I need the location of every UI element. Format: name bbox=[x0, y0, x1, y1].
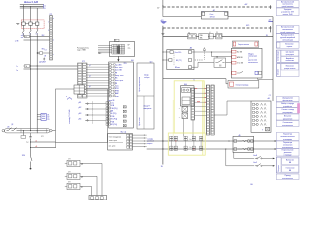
wire breaker link bbox=[25, 23, 29, 25]
contact block SB2 with text bbox=[199, 34, 209, 40]
wire rail1 tap to A2 bbox=[162, 10, 164, 17]
svg-text:ВВ: ВВ bbox=[289, 162, 291, 164]
wire capsule to panel bbox=[52, 130, 55, 132]
svg-text:КЧ: КЧ bbox=[188, 32, 190, 34]
transducer BR terminal grid bbox=[111, 44, 113, 54]
svg-text:Откл невыдержка: Откл невыдержка bbox=[109, 137, 122, 139]
transducer BR box bbox=[109, 42, 134, 57]
svg-text:Отключение: Отключение bbox=[283, 122, 293, 124]
svg-text:РЗА: РЗА bbox=[111, 120, 115, 123]
panel enclosure left big box bbox=[56, 89, 108, 142]
lamp panel A4 box bbox=[251, 101, 271, 132]
controller A1 lower terminal rows bbox=[106, 102, 108, 104]
svg-text:ЛТВ: ЛТВ bbox=[123, 63, 126, 65]
svg-text:ТН: ТН bbox=[25, 66, 27, 68]
svg-text:нВ: нВ bbox=[44, 56, 46, 58]
svg-text:SA: SA bbox=[216, 55, 218, 58]
svg-text:QF: QF bbox=[11, 124, 13, 126]
svg-text:измерение: измерение bbox=[143, 108, 151, 110]
node pink highlight bar bbox=[297, 103, 299, 113]
svg-text:Сирена звонок: Сирена звонок bbox=[238, 44, 249, 46]
node hook symbol bbox=[67, 98, 72, 100]
wire highlight yellow verticals bbox=[202, 81, 204, 155]
svg-text:1Т2: 1Т2 bbox=[47, 117, 50, 119]
svg-text:ЛЕ2: ЛЕ2 bbox=[41, 35, 44, 37]
svg-text:освещения: освещения bbox=[283, 139, 292, 141]
wire feeder to XT1 upper bbox=[24, 36, 50, 38]
interlock relay A5 box bbox=[233, 136, 254, 152]
svg-text:Отключ с завод: Отключ с завод bbox=[281, 109, 293, 111]
cable line KL capsule bbox=[5, 129, 50, 133]
svg-text:регулировки: регулировки bbox=[283, 112, 293, 114]
svg-text:с: с bbox=[53, 54, 54, 56]
svg-text:сеть: сеть bbox=[111, 102, 115, 104]
svg-text:отключение: отключение bbox=[286, 60, 295, 62]
current transformer TA1 stubs bbox=[37, 113, 41, 115]
svg-text:1Б: 1Б bbox=[161, 166, 164, 168]
svg-text:L1: L1 bbox=[44, 6, 46, 8]
terminal box bottom bbox=[89, 196, 107, 201]
relay outputs K in A1 bbox=[123, 106, 126, 108]
bus +ШУ rail 1 dash-dot bbox=[163, 6, 272, 8]
power supply A2 box bbox=[201, 12, 228, 20]
wire module bottom out bbox=[257, 78, 259, 80]
svg-text:ДВ: ДВ bbox=[111, 111, 114, 113]
wire aux feeder 2 y69 bbox=[24, 68, 78, 70]
svg-text:ВВ: ВВ bbox=[289, 170, 291, 172]
svg-text:с1: с1 bbox=[22, 33, 24, 35]
wire A2 output bbox=[228, 16, 273, 18]
svg-text:Автоматический: Автоматический bbox=[281, 26, 294, 29]
svg-text:Обогрев привода: Обогрев привода bbox=[236, 84, 249, 86]
wire T1 to bottom box bbox=[80, 162, 102, 164]
disconnector QS2 bbox=[12, 130, 14, 132]
wire capsule internal bbox=[17, 130, 49, 132]
wire strip to lamp column bbox=[214, 114, 227, 116]
svg-text:1-ЛВ: 1-ЛВ bbox=[15, 40, 19, 42]
node tick on control vertical bbox=[161, 33, 164, 35]
node red dots on terminals bbox=[175, 141, 176, 142]
wire tail line nB to panel bbox=[31, 147, 56, 149]
node annotation box 5 bbox=[276, 42, 299, 48]
svg-text:Н: Н bbox=[209, 32, 210, 34]
svg-text:уВ3: уВ3 bbox=[79, 113, 82, 115]
svg-text:1ОВ: 1ОВ bbox=[111, 105, 115, 107]
wire phase C vertical bbox=[36, 8, 38, 22]
svg-text:А1: А1 bbox=[131, 59, 134, 62]
breaker QF1 pole B bbox=[29, 22, 32, 25]
svg-text:В2 (РЦ): В2 (РЦ) bbox=[111, 124, 118, 126]
svg-text:Сеть БПт: Сеть БПт bbox=[174, 52, 181, 54]
svg-text:1: 1 bbox=[48, 22, 49, 24]
svg-text:СЗ: СЗ bbox=[45, 49, 47, 51]
node mechanical link dashed bbox=[92, 102, 94, 125]
key switch SA1 bbox=[214, 58, 226, 67]
breaker QF1 pole C bbox=[36, 22, 39, 25]
svg-text:Сп: Сп bbox=[189, 147, 191, 149]
wire long output 1 bbox=[147, 140, 277, 142]
svg-text:осц: осц bbox=[128, 47, 131, 49]
contact block SB1 bbox=[188, 34, 197, 39]
svg-text:в: в bbox=[53, 40, 54, 42]
svg-text:Ж (РЦ): Ж (РЦ) bbox=[111, 113, 117, 115]
svg-text:Привод: Привод bbox=[285, 175, 291, 177]
svg-text:фВ: фВ bbox=[81, 175, 83, 178]
breaker QF1 red dashed enclosure bbox=[21, 20, 44, 29]
disconnector QS1 bbox=[7, 130, 9, 132]
terminal strip right A bbox=[206, 85, 209, 135]
wire output fan bbox=[133, 134, 147, 136]
node A3 internal dashes bbox=[173, 53, 175, 66]
terminal row yellow box bottom bbox=[168, 133, 205, 155]
node annotation box 15 bbox=[276, 149, 299, 157]
node A5 row2 components bbox=[234, 148, 237, 151]
svg-text:А5: А5 bbox=[239, 134, 241, 137]
siren box HA1 bbox=[232, 41, 258, 47]
wire T2 to bottom box bbox=[80, 175, 97, 177]
current test block T1 bbox=[67, 160, 80, 166]
wire feeder to XT1 lower bbox=[24, 39, 50, 41]
svg-text:Шкаф: Шкаф bbox=[144, 74, 149, 77]
svg-text:Включение: Включение bbox=[285, 44, 293, 46]
svg-text:с3: с3 bbox=[36, 33, 38, 35]
svg-text:фА: фА bbox=[81, 163, 83, 166]
svg-text:АВР: АВР bbox=[115, 92, 119, 95]
svg-text:выключателя: выключателя bbox=[248, 62, 258, 64]
wire phase A vertical bbox=[23, 5, 25, 22]
svg-text:ручной аварийной: ручной аварийной bbox=[280, 36, 295, 39]
svg-text:А4: А4 bbox=[268, 97, 270, 100]
wire A6 outputs crossing yellow bbox=[195, 88, 207, 90]
svg-text:отбора: отбора bbox=[144, 77, 149, 79]
svg-text:РУ: РУ bbox=[115, 40, 117, 42]
svg-text:1РШ: 1РШ bbox=[22, 155, 26, 157]
svg-text:А3: А3 bbox=[190, 47, 192, 50]
annotation tall box center bbox=[137, 63, 154, 129]
node breaker actuator mark bbox=[16, 22, 19, 24]
controller A1 input rows bbox=[109, 64, 111, 66]
svg-text:в приводе: в приводе bbox=[284, 154, 292, 156]
svg-text:ХТ1: ХТ1 bbox=[49, 14, 52, 16]
svg-text:1ТТ: 1ТТ bbox=[68, 159, 71, 161]
junction capsule phase crossings bbox=[23, 130, 24, 131]
svg-text:к шкафу: к шкафу bbox=[147, 137, 153, 140]
svg-text:Модуль: Модуль bbox=[248, 53, 254, 55]
svg-text:ТО (РЦ): ТО (РЦ) bbox=[111, 119, 118, 121]
svg-text:токов. цепи: токов. цепи bbox=[109, 140, 117, 142]
wire phase A tail bbox=[23, 131, 25, 136]
svg-text:ХТ2: ХТ2 bbox=[82, 61, 85, 63]
wire A3 left taps bbox=[163, 51, 170, 53]
svg-text:Сигнализация: Сигнализация bbox=[278, 51, 280, 61]
wire phase C tail bbox=[36, 131, 38, 134]
wire tail line n0 to panel bbox=[31, 141, 56, 143]
svg-text:1В: 1В bbox=[266, 35, 268, 37]
node annotation box 17 bbox=[276, 174, 299, 180]
wire SF2 to arrow bbox=[264, 165, 274, 167]
wire control feed top bbox=[162, 0, 164, 7]
terminal column A6 right bbox=[191, 88, 195, 120]
wire harness into БР box bbox=[98, 45, 112, 47]
wire SF1 to arrow bbox=[264, 157, 274, 159]
svg-text:у8: у8 bbox=[89, 86, 91, 88]
controller A1 box bbox=[109, 62, 134, 128]
wire A3 row1 to module bbox=[192, 51, 232, 53]
svg-text:Внешнее: Внешнее bbox=[284, 115, 291, 117]
wire key switch to module bbox=[226, 61, 232, 63]
svg-text:N: N bbox=[44, 8, 46, 10]
node red tick marks bbox=[195, 88, 197, 90]
svg-text:+: + bbox=[179, 117, 181, 119]
svg-text:1в: 1в bbox=[16, 70, 18, 72]
svg-text:КонВ: КонВ bbox=[253, 155, 257, 157]
svg-text:Рупор устройств: Рупор устройств bbox=[281, 34, 294, 37]
node annotation box 3 bbox=[276, 26, 299, 34]
switch module A box right bbox=[231, 48, 262, 78]
heater box lower bbox=[228, 81, 259, 89]
svg-text:вкл. цепи: вкл. цепи bbox=[109, 145, 116, 147]
node module row4 contacts bbox=[232, 71, 236, 74]
svg-text:1Т3: 1Т3 bbox=[47, 119, 50, 121]
svg-text:СМ (РЦ): СМ (РЦ) bbox=[111, 108, 118, 110]
svg-text:3: 3 bbox=[48, 30, 49, 32]
svg-text:ДУга: ДУга bbox=[39, 61, 43, 63]
node line end dot bbox=[30, 168, 32, 170]
svg-text:Включение: Включение bbox=[286, 65, 294, 67]
drive unit A6 box bbox=[181, 86, 195, 106]
wire neutral down bbox=[30, 139, 32, 156]
svg-text:подст. ПВВ: подст. ПВВ bbox=[77, 50, 87, 52]
wire phase A below breaker with switch bbox=[23, 25, 25, 30]
svg-text:уВ4: уВ4 bbox=[79, 119, 82, 121]
node A2 left terminal bbox=[202, 12, 205, 15]
svg-text:ЗМЛ: ЗМЛ bbox=[43, 62, 46, 64]
svg-text:н0: н0 bbox=[35, 141, 37, 143]
node A5 row1 components bbox=[234, 140, 237, 143]
svg-text:ХТ: ХТ bbox=[223, 11, 225, 13]
svg-text:ВЦ, СЦ: ВЦ, СЦ bbox=[121, 131, 127, 133]
wire phase B vertical bbox=[30, 6, 32, 22]
wire K relays down to terminals bbox=[183, 119, 185, 137]
svg-text:при обрыве: при обрыве bbox=[286, 52, 295, 54]
ground earth symbol bbox=[30, 133, 32, 137]
wire highlight yellow outline upper bbox=[174, 81, 204, 133]
svg-text:к шкафу ТН-10кВ: к шкафу ТН-10кВ bbox=[68, 109, 71, 124]
node annotation box 8 bbox=[276, 97, 299, 102]
fuse FU2 on aux feeder bbox=[24, 65, 29, 68]
output block terminal grid bbox=[128, 134, 130, 149]
svg-text:у4: у4 bbox=[89, 76, 91, 78]
svg-text:3ТТ: 3ТТ bbox=[68, 182, 71, 184]
node annotation box 9 bbox=[276, 102, 299, 108]
svg-text:уВ2: уВ2 bbox=[79, 107, 82, 109]
wire A3 row2 dashed with arrow bbox=[195, 59, 203, 61]
wire aux feeder 1 y66 bbox=[24, 65, 78, 67]
svg-text:откл: откл bbox=[115, 96, 118, 98]
junction neutral taps bbox=[30, 142, 31, 143]
node annotation box 12 bbox=[276, 121, 299, 127]
svg-text:нВ: нВ bbox=[35, 146, 37, 148]
svg-text:а: а bbox=[53, 18, 54, 20]
svg-text:Аварийное: Аварийное bbox=[286, 57, 294, 60]
node module terminal row1 bbox=[232, 50, 236, 53]
voltage tap TV from phase C bbox=[37, 52, 39, 54]
svg-text:Обогрев: Обогрев bbox=[278, 69, 280, 75]
terminal pairs in yellow box bbox=[170, 136, 172, 151]
svg-text:Т-2: Т-2 bbox=[26, 142, 29, 144]
svg-text:Шкаф ТТ: Шкаф ТТ bbox=[143, 105, 150, 108]
node annotation box 11 bbox=[276, 114, 299, 120]
wire XT2 to A1 rows bbox=[86, 64, 109, 66]
breaker QF1 pole A bbox=[22, 22, 25, 25]
node annotation box 4 bbox=[276, 34, 299, 42]
svg-text:ВК (ТУ): ВК (ТУ) bbox=[176, 60, 182, 62]
relay module A3 box bbox=[167, 50, 194, 70]
svg-text:Выбор с зарядн: Выбор с зарядн bbox=[281, 103, 294, 105]
svg-text:коммутации: коммутации bbox=[248, 56, 257, 58]
node box below phase A bbox=[21, 136, 26, 139]
wire phase B below breaker with switch bbox=[30, 25, 32, 30]
wire A5 bottom branch bbox=[233, 152, 235, 158]
svg-text:ТТ: ТТ bbox=[25, 36, 27, 38]
svg-text:ВКлюч: ВКлюч bbox=[175, 67, 180, 69]
node module terminal row2 bbox=[232, 56, 236, 59]
svg-text:Сп: Сп bbox=[189, 139, 191, 141]
bus -ШУ rail 2 dash-dot bbox=[163, 27, 272, 29]
wire branch down row2 feed bbox=[211, 52, 213, 57]
svg-text:Включение: Включение bbox=[286, 160, 294, 162]
svg-text:цепи управ: цепи управ bbox=[286, 54, 294, 56]
wire highlight yellow pale vertical bbox=[172, 100, 174, 136]
node A6 comp box 1 bbox=[182, 97, 190, 105]
svg-text:КЛ: КЛ bbox=[41, 136, 43, 138]
svg-text:РОВ: РОВ bbox=[111, 116, 115, 118]
wire alarm row y36.7 bbox=[163, 36, 273, 38]
svg-text:ХТ: ХТ bbox=[202, 11, 204, 13]
svg-text:цепей питания: цепей питания bbox=[282, 5, 294, 8]
transducer BR core bar bbox=[117, 46, 119, 54]
junction aux feeder phase B bbox=[30, 65, 31, 66]
node A4 bottom terminal bbox=[266, 127, 270, 131]
svg-text:о: о bbox=[66, 96, 67, 98]
relay K1 box bbox=[182, 107, 188, 113]
fuse FU1 on feeder bbox=[25, 35, 30, 38]
bus 0.4kV three-phase busbars bbox=[20, 4, 44, 6]
svg-text:QS: QS bbox=[7, 126, 9, 128]
current test block T2 bbox=[67, 173, 80, 179]
node capsule right connector bbox=[50, 130, 52, 132]
node A3 row2 bbox=[169, 59, 172, 62]
svg-text:сирены: сирены bbox=[287, 46, 293, 48]
svg-text:ЗУП-В: ЗУП-В bbox=[210, 16, 216, 18]
node capsule left connector bbox=[2, 130, 4, 132]
wire T3 to bottom box bbox=[80, 185, 92, 187]
svg-text:1с: 1с bbox=[16, 66, 18, 68]
svg-text:8Н: 8Н bbox=[250, 184, 253, 186]
svg-text:А2: А2 bbox=[213, 9, 215, 12]
contact block SB4 bbox=[216, 34, 222, 39]
relay K2 box bbox=[182, 113, 188, 119]
node harness arrow bbox=[99, 52, 102, 54]
current transformer TA1 box bbox=[41, 113, 46, 120]
ground symbol below tap bbox=[43, 58, 45, 59]
svg-text:+ШУ: +ШУ bbox=[244, 4, 248, 6]
svg-text:уВ1: уВ1 bbox=[79, 102, 82, 104]
svg-text:манев. 11кВ: манев. 11кВ bbox=[283, 14, 293, 16]
wire control vertical main bbox=[162, 28, 164, 165]
svg-text:выключателя: выключателя bbox=[282, 178, 293, 180]
node A3 row1 bbox=[170, 51, 173, 54]
svg-text:2ТТ: 2ТТ bbox=[68, 172, 71, 174]
node annotation box 16 with sidebar bbox=[276, 157, 299, 173]
node A2 right terminal bbox=[225, 12, 228, 15]
node annotation box 6 with sidebar bbox=[276, 50, 299, 63]
wire phase C below breaker with switch bbox=[36, 25, 38, 30]
svg-text:ШО: ШО bbox=[150, 62, 153, 64]
svg-text:Контроль: Контроль bbox=[278, 165, 280, 172]
node annotation box 1 bbox=[276, 1, 299, 8]
svg-text:БР: БР bbox=[128, 45, 130, 47]
svg-text:и: и bbox=[248, 58, 249, 60]
terminal strip right B bbox=[211, 85, 214, 135]
node annotation box 2 bbox=[276, 8, 299, 16]
svg-text:устройства: устройства bbox=[283, 105, 292, 108]
terminal strip XT2 bbox=[78, 63, 88, 98]
node BR top label bbox=[114, 39, 119, 41]
svg-text:защиты: защиты bbox=[147, 143, 152, 145]
svg-text:Шины 0,4кВ: Шины 0,4кВ bbox=[24, 0, 39, 4]
svg-text:фаз питания: фаз питания bbox=[283, 99, 293, 102]
svg-text:1Т1: 1Т1 bbox=[47, 114, 50, 116]
svg-text:Вкл ВВ: Вкл ВВ bbox=[237, 52, 242, 54]
node annotation box 7 with sidebar bbox=[276, 64, 299, 77]
svg-text:диагностики: диагностики bbox=[248, 60, 257, 62]
node feeder tick marks bbox=[21, 35, 23, 37]
current test block T3 bbox=[67, 183, 80, 189]
node A6 coil sub-box bbox=[182, 88, 191, 93]
svg-text:АПВ ВВ: АПВ ВВ bbox=[237, 56, 242, 59]
svg-text:фС: фС bbox=[81, 186, 83, 189]
svg-text:управление: управление bbox=[283, 118, 292, 120]
svg-text:Б: Б bbox=[194, 79, 195, 81]
svg-text:А10: А10 bbox=[184, 83, 187, 86]
contact block SB3 bbox=[209, 34, 213, 39]
svg-text:Цепи напряжения: Цепи напряжения bbox=[139, 77, 141, 92]
wire long vertical right x273 bbox=[272, 17, 274, 101]
output block box bottom-center bbox=[108, 134, 133, 150]
svg-text:КонО: КонО bbox=[253, 162, 258, 164]
lamp rows in A4 bbox=[253, 103, 255, 105]
node annotation box 14 bbox=[276, 141, 299, 149]
svg-text:у1: у1 bbox=[89, 65, 91, 67]
svg-text:ЛС: ЛС bbox=[216, 32, 218, 34]
svg-text:Цепи тока: Цепи тока bbox=[139, 118, 141, 126]
terminal block top 2x3 bbox=[74, 85, 85, 94]
node annotation box 13 bbox=[276, 133, 299, 141]
svg-text:ШУ: ШУ bbox=[157, 8, 159, 10]
wire lower feed y78.6 bbox=[163, 78, 226, 80]
wire BR to A1 arrow bbox=[117, 56, 119, 59]
terminal strip XT1 bbox=[50, 16, 53, 61]
node module terminal row3 bbox=[232, 61, 236, 64]
wire strip branch to switch2 bbox=[225, 149, 227, 166]
wire A3 row3 to key switch bbox=[192, 66, 198, 68]
svg-text:выключателя: выключателя bbox=[282, 125, 293, 127]
wire long output 2 bbox=[147, 148, 277, 150]
svg-text:+: + bbox=[179, 108, 181, 110]
svg-text:резерв питания: резерв питания bbox=[284, 68, 295, 70]
svg-text:9: 9 bbox=[262, 129, 263, 131]
